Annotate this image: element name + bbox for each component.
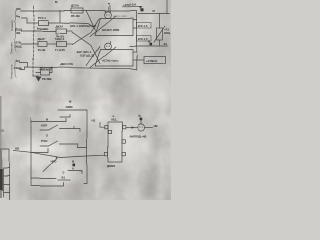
label group Pitanie bbox=[10, 28, 17, 55]
svg-text:Ом: Ом bbox=[16, 14, 20, 18]
wire R2 right bbox=[66, 30, 72, 32]
resistor R5 bbox=[37, 67, 53, 75]
svg-text:ДМВ1: ДМВ1 bbox=[107, 164, 116, 168]
svg-text:М: М bbox=[72, 161, 74, 164]
wire R4 right bbox=[66, 43, 72, 45]
svg-text:ОБЩ: ОБЩ bbox=[15, 66, 22, 70]
svg-text:МОмВБ: МОмВБ bbox=[37, 27, 49, 31]
svg-text:R5-0В: R5-0В bbox=[71, 14, 81, 18]
label term ZV bbox=[17, 31, 21, 35]
wire rail y46 bbox=[130, 45, 168, 47]
wire box to IC bbox=[0, 0, 1, 1]
svg-text:КОП: КОП bbox=[41, 123, 47, 127]
paper creases (decorative) bbox=[0, 0, 171, 200]
svg-text:М: М bbox=[46, 119, 48, 122]
svg-text:РЕЧЕВ: РЕЧЕВ bbox=[43, 77, 53, 81]
switch S3 lever bbox=[43, 157, 57, 172]
label K2 bbox=[102, 58, 119, 62]
svg-text:0,5Гц(1,2): 0,5Гц(1,2) bbox=[80, 53, 94, 57]
wire Om stub bbox=[22, 18, 28, 23]
frame line inner bbox=[4, 168, 10, 197]
resistor R1 bbox=[38, 20, 48, 25]
svg-text:Генератор: Генератор bbox=[10, 64, 14, 79]
svg-text:Питание: Питание bbox=[10, 42, 14, 54]
switch S2 RChO bbox=[40, 141, 87, 148]
svg-text:+27В(А): +27В(А) bbox=[146, 59, 157, 63]
wire R1 to junction bbox=[48, 10, 94, 28]
label term VCh bbox=[17, 59, 21, 63]
svg-text:ДБ4Г: ДБ4Г bbox=[38, 37, 46, 41]
ink layer bbox=[0, 0, 169, 200]
label box +27V(A) bbox=[133, 57, 166, 64]
ground bbox=[34, 76, 43, 82]
resistor R4 bbox=[56, 42, 66, 47]
wire rail3 bbox=[22, 43, 39, 45]
label R4 name bbox=[55, 37, 64, 41]
label R3 name bbox=[38, 37, 46, 41]
wire +27V top bbox=[123, 6, 142, 8]
svg-text:АБ1: АБ1 bbox=[111, 117, 117, 121]
svg-text:Гг-0,25: Гг-0,25 bbox=[55, 48, 65, 52]
svg-text:О: О bbox=[46, 134, 48, 137]
label R4 val bbox=[55, 48, 65, 52]
label R2 name bbox=[56, 24, 65, 28]
svg-text:НО1-1: НО1-1 bbox=[55, 37, 64, 41]
label ZV2 line bbox=[76, 50, 92, 54]
svg-text:220-1,5: 220-1,5 bbox=[138, 37, 148, 41]
label M top bbox=[55, 0, 58, 4]
svg-text:ОВМ: ОВМ bbox=[66, 105, 74, 109]
node terminal OM bbox=[21, 10, 23, 12]
wire cross X1 bbox=[72, 18, 100, 64]
IC U1 bbox=[108, 122, 122, 162]
label ZCh bbox=[164, 42, 168, 46]
switch rung A bbox=[31, 119, 66, 122]
wire down right bbox=[130, 46, 137, 70]
label R5 name bbox=[40, 66, 52, 70]
label M KOP bbox=[41, 119, 48, 128]
svg-text:АМПЛ(2)+4В: АМПЛ(2)+4В bbox=[130, 134, 147, 138]
label term Om2 bbox=[16, 14, 20, 18]
label term OBSh1 bbox=[15, 27, 22, 31]
label term OBSh2 bbox=[15, 44, 22, 48]
svg-text:ЗВ: ЗВ bbox=[152, 11, 155, 13]
svg-text:ВОЦ: ВОЦ bbox=[164, 31, 171, 35]
svg-text:НВ: НВ bbox=[154, 124, 158, 128]
label K1 bbox=[102, 27, 120, 31]
svg-text:ДК2А: ДК2А bbox=[56, 24, 65, 28]
svg-text:ОМ: ОМ bbox=[16, 7, 21, 11]
pin boxes left bbox=[105, 126, 112, 156]
label R5 val bbox=[43, 77, 53, 81]
svg-text:та: та bbox=[108, 2, 111, 6]
svg-text:А: А bbox=[72, 166, 74, 170]
svg-text:ВЧ: ВЧ bbox=[17, 59, 21, 63]
wire frame right bbox=[166, 0, 168, 14]
label R2 val bbox=[56, 35, 64, 39]
relay block K1 bbox=[90, 16, 137, 37]
label HO1 line1 bbox=[70, 24, 96, 28]
svg-text:М: М bbox=[148, 40, 150, 43]
svg-text:(1): (1) bbox=[1, 129, 5, 133]
resistor R2 bbox=[56, 29, 66, 34]
label HO1 line2 bbox=[114, 15, 128, 17]
wire IC left in bbox=[100, 123, 105, 128]
svg-text:НО1-1 120РУ: НО1-1 120РУ bbox=[114, 15, 128, 17]
svg-text:РЧО: РЧО bbox=[41, 139, 48, 143]
wire top rail bbox=[23, 11, 137, 20]
label R3 val bbox=[38, 48, 46, 52]
label M A bbox=[72, 161, 74, 171]
relay block K2 bbox=[90, 47, 137, 68]
wire right vertical bbox=[137, 14, 160, 47]
label R_top name bbox=[71, 4, 80, 8]
switch box S bbox=[31, 110, 87, 186]
label 220-2 bbox=[137, 36, 152, 42]
label R_top val bbox=[71, 14, 81, 18]
label +27V-06 bbox=[124, 2, 137, 6]
svg-text:Омметр: Омметр bbox=[10, 20, 14, 31]
node dot M2 bbox=[150, 43, 153, 46]
wire IC to meter bbox=[125, 126, 137, 129]
label M3 bbox=[139, 115, 141, 118]
meter symbol P1 bbox=[105, 7, 112, 18]
label 220-1 bbox=[137, 23, 152, 29]
label O RChO bbox=[41, 134, 48, 143]
wire rail2 bbox=[22, 30, 57, 32]
wire tick top bbox=[60, 115, 70, 118]
label M2 bbox=[148, 40, 150, 43]
svg-text:ОВ: ОВ bbox=[16, 147, 20, 151]
svg-text:ДБ4 СУБ: ДБ4 СУБ bbox=[40, 66, 52, 70]
frame line left bbox=[0, 149, 10, 200]
label term +27 bbox=[15, 41, 22, 45]
label +E1 bbox=[164, 27, 169, 31]
pin boxes right bbox=[122, 126, 125, 156]
label NZ bbox=[92, 119, 96, 123]
wire bottom rail bbox=[25, 67, 130, 69]
label R1 val bbox=[37, 27, 49, 31]
svg-text:М: М bbox=[139, 115, 141, 118]
node dot MA bbox=[73, 164, 76, 167]
label OV bbox=[16, 147, 20, 151]
svg-text:АСУВ-03Ве: АСУВ-03Ве bbox=[102, 58, 119, 62]
meter symbol P2 bbox=[105, 41, 112, 49]
label (1) bbox=[1, 129, 5, 133]
label ZV2 line2 bbox=[80, 53, 94, 57]
wire rung V1 bbox=[58, 179, 70, 181]
label term OBSh3 bbox=[15, 66, 22, 70]
svg-text:ДУ5А: ДУ5А bbox=[71, 4, 80, 8]
screen dashed line bbox=[33, 6, 35, 76]
svg-text:М: М bbox=[140, 6, 142, 9]
label O V1 bbox=[62, 171, 66, 179]
svg-text:НО4КУ-ЛЛВ: НО4КУ-ЛЛВ bbox=[102, 27, 120, 31]
wire VCh terminal bbox=[20, 63, 28, 68]
svg-text:ЗЧ: ЗЧ bbox=[164, 42, 168, 46]
svg-text:РУ1-2: РУ1-2 bbox=[38, 16, 46, 20]
svg-text:220-1,5: 220-1,5 bbox=[138, 24, 148, 28]
svg-text:ЧРО: ЧРО bbox=[50, 160, 57, 164]
svg-text:ДВ4 СУВ: ДВ4 СУВ bbox=[60, 63, 74, 67]
node M stub top bbox=[110, 6, 111, 12]
wire OBShch terminal bbox=[20, 67, 25, 69]
wire to R1 bbox=[27, 22, 38, 24]
label ta bbox=[108, 2, 111, 6]
wire rung C bbox=[31, 149, 48, 153]
wire R3 to R4 bbox=[47, 43, 56, 45]
label term OM bbox=[16, 7, 21, 11]
wire cross X2 bbox=[86, 11, 100, 66]
label IC AB1 bbox=[111, 116, 117, 122]
paper base bbox=[0, 0, 171, 200]
switch S1 KOP bbox=[40, 125, 80, 132]
label M1 bbox=[140, 6, 142, 9]
label R1 name bbox=[38, 16, 46, 20]
switch S4 ZA bbox=[68, 171, 82, 174]
node dot M1 bbox=[141, 8, 144, 11]
varistor RU1 bbox=[154, 26, 165, 46]
wire right rail bbox=[138, 13, 169, 15]
svg-text:ЗВ: ЗВ bbox=[17, 31, 21, 35]
svg-text:В1: В1 bbox=[62, 176, 66, 180]
svg-text:+27В-0,6: +27В-0,6 bbox=[124, 2, 137, 6]
svg-text:НО1-1 120РУБ(0,1,2): НО1-1 120РУБ(0,1,2) bbox=[70, 24, 96, 28]
node dot M3 bbox=[140, 118, 143, 124]
svg-text:О: О bbox=[63, 171, 65, 174]
svg-text:РгчВ: РгчВ bbox=[38, 48, 46, 52]
svg-text:НЗ: НЗ bbox=[92, 119, 96, 123]
label M OVM bbox=[66, 100, 74, 109]
label NV bbox=[154, 124, 158, 128]
meter P3 bbox=[137, 124, 144, 131]
wire meter out bbox=[145, 127, 153, 129]
resistor R3 bbox=[38, 42, 47, 47]
label +27V(A) bbox=[146, 59, 157, 63]
label group Ommetr bbox=[10, 10, 17, 34]
svg-text:М: М bbox=[113, 116, 115, 118]
resistor R_top bbox=[71, 8, 83, 13]
wire OV long bbox=[14, 151, 105, 158]
label VOC bbox=[164, 31, 171, 35]
label AMPL bbox=[130, 134, 147, 138]
label ZV small bbox=[152, 11, 155, 13]
label IC DMV1 bbox=[107, 164, 116, 168]
label ChRO bbox=[50, 160, 57, 164]
svg-text:ОБЩ: ОБЩ bbox=[15, 44, 22, 48]
label DV4 bbox=[60, 63, 74, 67]
label group Generator bbox=[10, 60, 17, 80]
wire rung G bbox=[31, 178, 56, 180]
dark left margin bottom bbox=[0, 96, 3, 198]
